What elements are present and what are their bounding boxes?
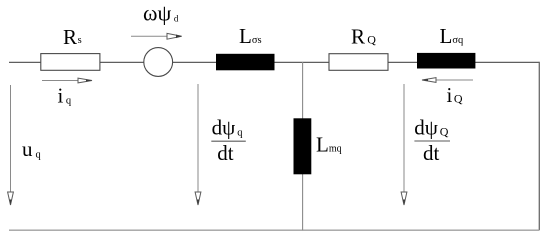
resistor RQ bbox=[329, 54, 388, 71]
wire source to Lsigma-s bbox=[173, 61, 217, 63]
inductor Lmq bbox=[294, 118, 312, 174]
wire Lsigma-q to right corner bbox=[475, 61, 539, 63]
arrow uq (left voltage arrow) bbox=[8, 85, 14, 205]
wire Lsigma-s to RQ bbox=[275, 61, 330, 63]
wire right vertical bbox=[538, 62, 540, 231]
label d-psi-q/dt fraction bbox=[211, 115, 246, 165]
wire bottom bbox=[9, 229, 539, 231]
svg-text:Lσs: Lσs bbox=[239, 24, 262, 48]
resistor Rs bbox=[41, 54, 100, 71]
source U1 (speed voltage) circle bbox=[144, 48, 173, 77]
svg-text:uq: uq bbox=[22, 137, 42, 161]
svg-text:RQ: RQ bbox=[351, 25, 376, 49]
arrow iq bbox=[42, 78, 92, 83]
arrow omega-psi-d bbox=[131, 33, 182, 39]
wire middle branch vertical bbox=[302, 62, 304, 230]
inductor Lsigma-q bbox=[417, 53, 475, 69]
svg-text:iQ: iQ bbox=[447, 83, 463, 107]
svg-text:dt: dt bbox=[423, 141, 440, 165]
svg-text:ωψd: ωψd bbox=[143, 0, 179, 25]
arrow iQ bbox=[422, 78, 473, 83]
wire top-left bbox=[9, 61, 41, 63]
svg-text:Lmq: Lmq bbox=[316, 132, 342, 156]
svg-text:dψQ: dψQ bbox=[414, 115, 448, 139]
label d-psi-Q/dt fraction bbox=[414, 115, 450, 165]
svg-text:dψq: dψq bbox=[212, 115, 244, 139]
svg-text:Lσq: Lσq bbox=[440, 24, 464, 48]
wire resistor Rs to source bbox=[100, 61, 144, 63]
svg-text:iq: iq bbox=[58, 83, 72, 107]
wire RQ to Lsigma-q bbox=[388, 61, 417, 63]
svg-text:dt: dt bbox=[217, 141, 234, 165]
arrow d-psi-q/dt bbox=[195, 84, 201, 205]
arrow d-psi-Q/dt bbox=[401, 84, 407, 205]
svg-text:Rs: Rs bbox=[63, 25, 82, 49]
inductor Lsigma-s bbox=[216, 54, 275, 71]
